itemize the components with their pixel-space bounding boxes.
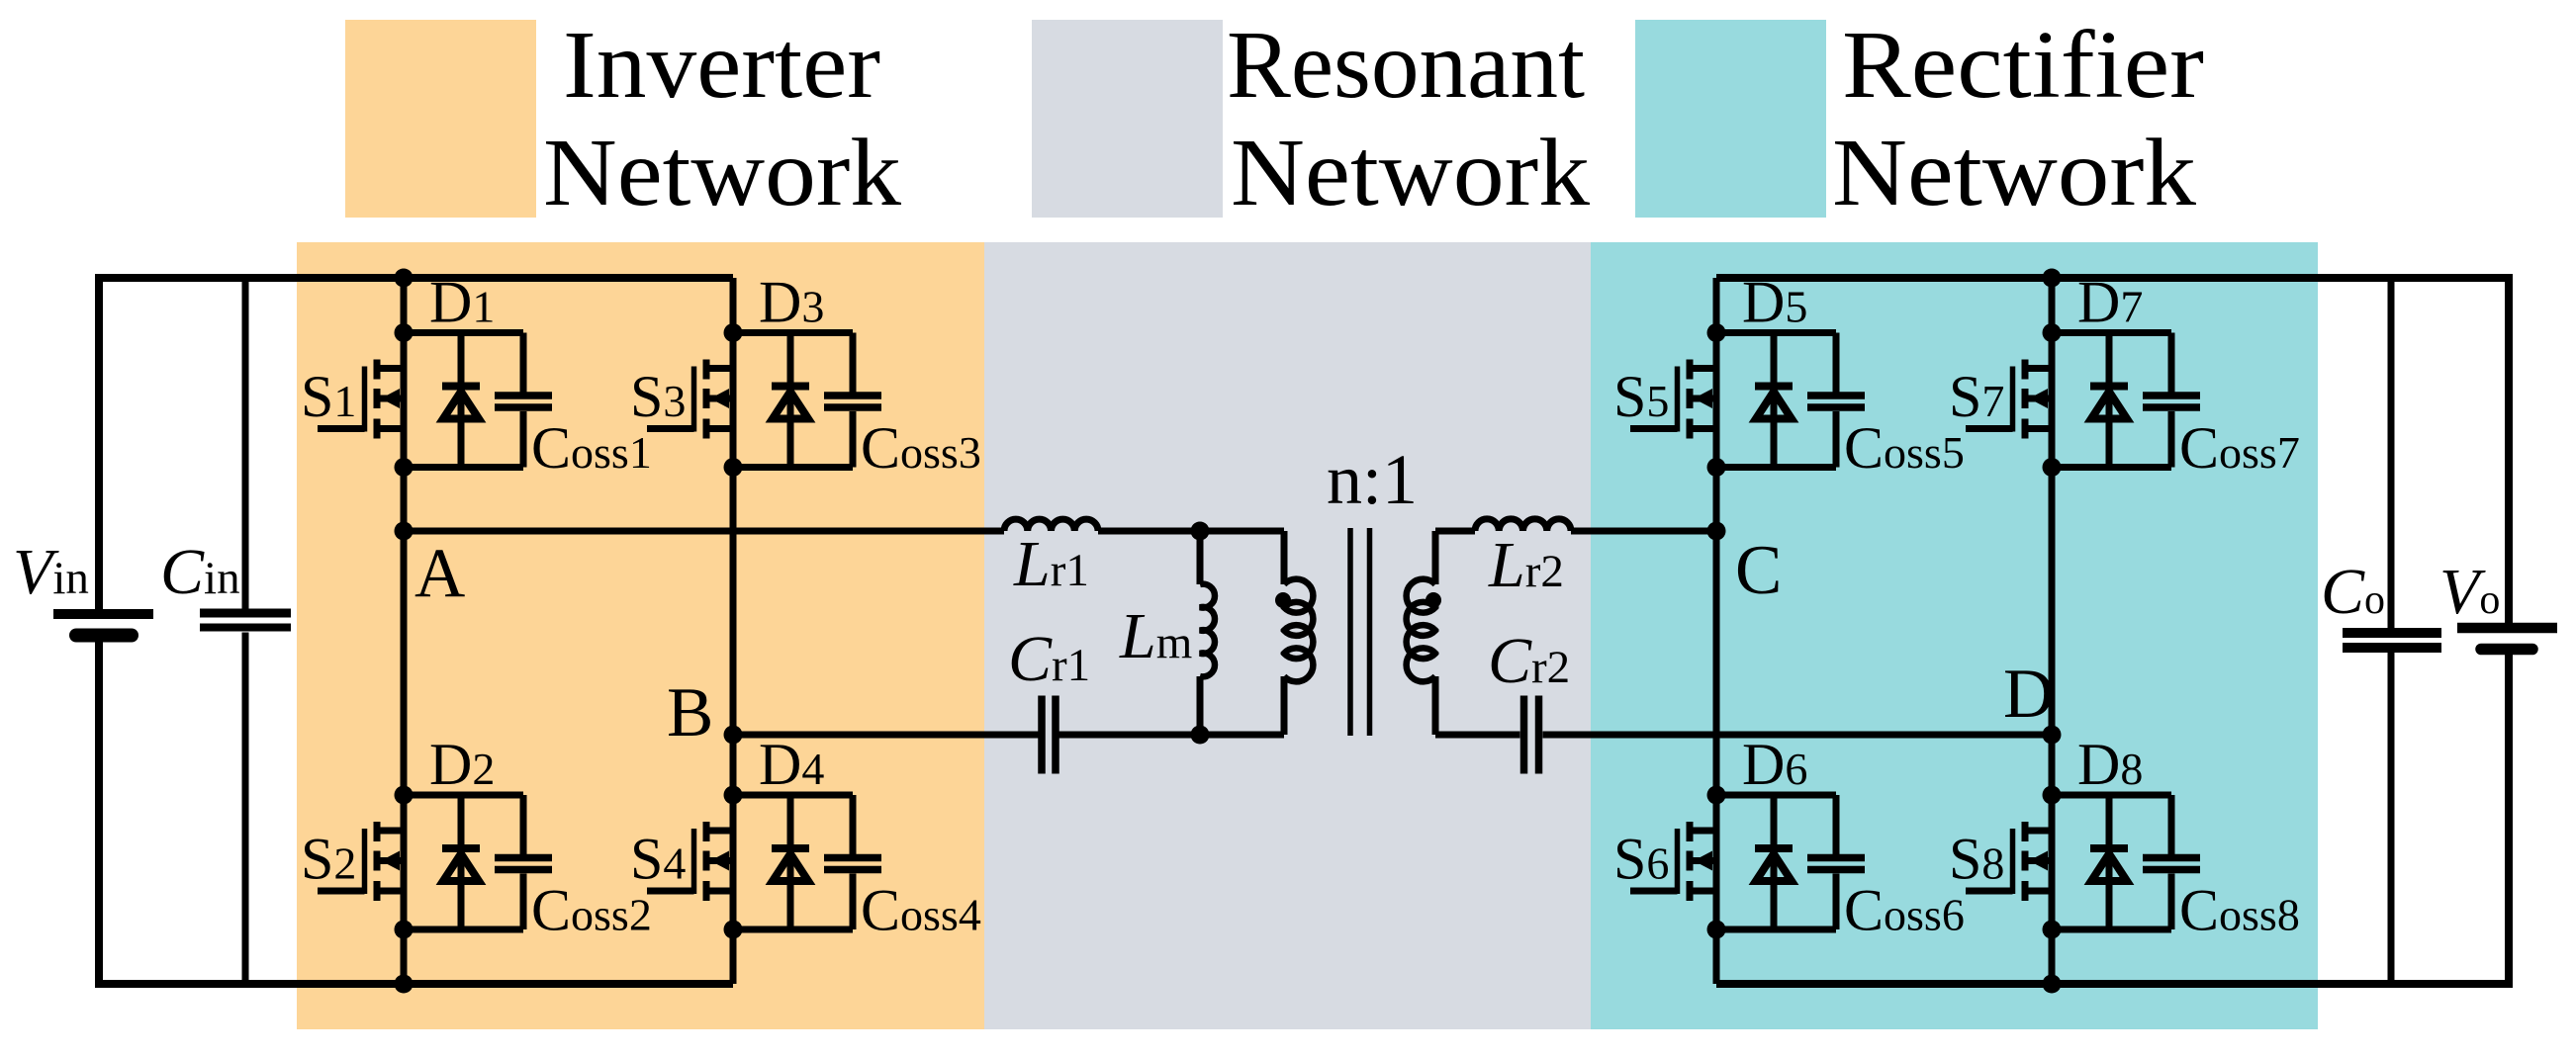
junction dot cell bottom S1: [395, 458, 414, 477]
wire cell bottom (S3): [733, 464, 853, 471]
diode D2 (body diode): [442, 795, 480, 929]
capacitor Coss1: [495, 333, 552, 468]
node A junction dot: [395, 522, 414, 541]
svg-text:Vin: Vin: [13, 536, 89, 608]
svg-text:Network: Network: [1832, 120, 2197, 225]
junction dot cell bottom S8: [2043, 921, 2062, 939]
svg-text:Vo: Vo: [2439, 556, 2500, 628]
svg-text:A: A: [414, 535, 465, 612]
junction dot cell bottom S4: [724, 921, 743, 939]
rectifier network region shading: [1591, 242, 2318, 1029]
transistor S3 (MOSFET): [647, 360, 733, 439]
wire cell bottom (S2): [404, 926, 523, 933]
capacitor Coss6: [1807, 795, 1865, 929]
svg-text:D: D: [2003, 656, 2054, 733]
wire rectifier leg 2 (S7/S8): [2049, 278, 2056, 984]
junction dot cell top S2: [395, 786, 414, 805]
wire Lm upper lead: [1197, 531, 1204, 584]
wire cell top (S1): [404, 329, 523, 336]
wire cell top (S2): [404, 792, 523, 799]
legend swatch inverter network: [345, 20, 536, 218]
junction dot cell top S6: [1707, 786, 1726, 805]
wire input top rail (Vin+ to bridge): [99, 278, 733, 610]
svg-text:Rectifier: Rectifier: [1842, 12, 2204, 118]
diode D1 (body diode): [442, 333, 480, 468]
junction dot cell bottom S6: [1707, 921, 1726, 939]
wire secondary bottom to Cr2: [1435, 732, 1520, 739]
transistor S2 (MOSFET): [318, 822, 404, 901]
diode D7 (body diode): [2090, 333, 2128, 468]
junction dot Lm bottom: [1191, 726, 1210, 745]
junction dot cell top S5: [1707, 323, 1726, 342]
wire cell bottom (S8): [2052, 926, 2171, 933]
wire Co upper lead: [2388, 278, 2395, 629]
transformer primary winding upper lead: [1281, 531, 1288, 584]
junction dot leg4 top rail: [2043, 269, 2062, 288]
wire Lm lower lead: [1197, 676, 1204, 735]
wire output top rail (bridge to Vo+): [1716, 278, 2509, 623]
wire cell top (S4): [733, 792, 853, 799]
node B junction dot: [724, 726, 743, 745]
transistor S1 (MOSFET): [318, 360, 404, 439]
inverter network region shading: [297, 242, 984, 1029]
legend swatch resonant network: [1032, 20, 1223, 218]
capacitor Coss7: [2143, 333, 2200, 468]
wire secondary top to Lr2: [1435, 528, 1475, 535]
node C junction dot: [1707, 522, 1726, 541]
svg-text:Resonant: Resonant: [1227, 12, 1585, 118]
wire cell top (S3): [733, 329, 853, 336]
node D junction dot: [2043, 726, 2062, 745]
capacitor Coss3: [824, 333, 881, 468]
transistor S5 (MOSFET): [1630, 360, 1716, 439]
transformer secondary polarity dot: [1426, 592, 1441, 608]
svg-text:C: C: [1735, 532, 1782, 609]
inductor Lr1: [1004, 519, 1098, 531]
diode D6 (body diode): [1755, 795, 1793, 929]
diode D3 (body diode): [772, 333, 809, 468]
svg-text:Network: Network: [543, 120, 902, 225]
junction dot cell top S3: [724, 323, 743, 342]
resonant network region shading: [984, 242, 1591, 1029]
capacitor Coss4: [824, 795, 881, 929]
capacitor Cr1: [1042, 696, 1056, 774]
wire inverter leg 1 (S1/S2): [401, 278, 408, 984]
junction dot cell top S1: [395, 323, 414, 342]
capacitor Coss5: [1807, 333, 1865, 468]
transformer primary winding lower lead: [1281, 676, 1288, 735]
capacitor Coss8: [2143, 795, 2200, 929]
svg-text:B: B: [667, 674, 713, 751]
wire cell bottom (S1): [404, 464, 523, 471]
transformer core: [1350, 528, 1370, 736]
transformer secondary winding lower lead: [1432, 676, 1439, 735]
capacitor Cr2: [1524, 696, 1539, 774]
svg-text:n:1: n:1: [1327, 440, 1418, 519]
junction dot cell bottom S5: [1707, 458, 1726, 477]
junction dot leg4 bottom rail: [2043, 975, 2062, 994]
diode D5 (body diode): [1755, 333, 1793, 468]
transformer secondary winding upper lead: [1432, 531, 1439, 584]
wire input bottom rail (Vin- to bridge): [99, 640, 733, 985]
diode D8 (body diode): [2090, 795, 2128, 929]
wire rectifier leg 1 (S5/S6): [1713, 278, 1720, 984]
voltage source Vin (battery): [53, 614, 153, 636]
transformer primary polarity dot: [1275, 592, 1291, 608]
inductor Lr2: [1475, 519, 1571, 531]
junction dot leg1 bottom rail: [395, 975, 414, 994]
wire inverter leg 2 (S3/S4): [730, 278, 737, 984]
legend swatch rectifier network: [1635, 20, 1826, 218]
junction dot cell top S4: [724, 786, 743, 805]
transistor S8 (MOSFET): [1966, 822, 2052, 901]
diode D4 (body diode): [772, 795, 809, 929]
wire node B rail to Cr1: [733, 732, 1039, 739]
transistor S7 (MOSFET): [1966, 360, 2052, 439]
wire cell bottom (S6): [1716, 926, 1836, 933]
wire cell bottom (S4): [733, 926, 853, 933]
wire node A rail to Lr1: [404, 528, 1004, 535]
wire Cr2 to node D: [1543, 732, 2053, 739]
wire cell bottom (S5): [1716, 464, 1836, 471]
svg-text:Inverter: Inverter: [563, 12, 880, 118]
wire cell top (S7): [2052, 329, 2171, 336]
junction dot leg1 top rail: [395, 269, 414, 288]
junction dot cell bottom S7: [2043, 458, 2062, 477]
wire Cr1 to primary bottom: [1059, 732, 1285, 739]
capacitor Coss2: [495, 795, 552, 929]
voltage source Vo (battery): [2457, 628, 2557, 650]
svg-text:Cin: Cin: [160, 536, 240, 608]
junction dot cell top S7: [2043, 323, 2062, 342]
junction dot cell bottom S3: [724, 458, 743, 477]
wire cell bottom (S7): [2052, 464, 2171, 471]
wire Co lower lead: [2388, 653, 2395, 984]
svg-text:Network: Network: [1231, 120, 1591, 225]
capacitor Co: [2343, 633, 2441, 648]
transistor S4 (MOSFET): [647, 822, 733, 901]
wire Lr2 to node C: [1571, 528, 1716, 535]
wire cell top (S8): [2052, 792, 2171, 799]
transistor S6 (MOSFET): [1630, 822, 1716, 901]
capacitor Cin: [200, 613, 291, 628]
wire cell top (S6): [1716, 792, 1836, 799]
junction dot cell bottom S2: [395, 921, 414, 939]
junction dot cell top S8: [2043, 786, 2062, 805]
wire output bottom rail (bridge to Vo-): [1716, 655, 2509, 984]
wire Cin lower lead: [242, 633, 249, 985]
wire cell top (S5): [1716, 329, 1836, 336]
wire Lr1 to primary node: [1098, 528, 1284, 535]
junction dot Lm top: [1191, 522, 1210, 541]
svg-text:Co: Co: [2321, 556, 2385, 628]
wire Cin upper lead: [242, 278, 249, 609]
